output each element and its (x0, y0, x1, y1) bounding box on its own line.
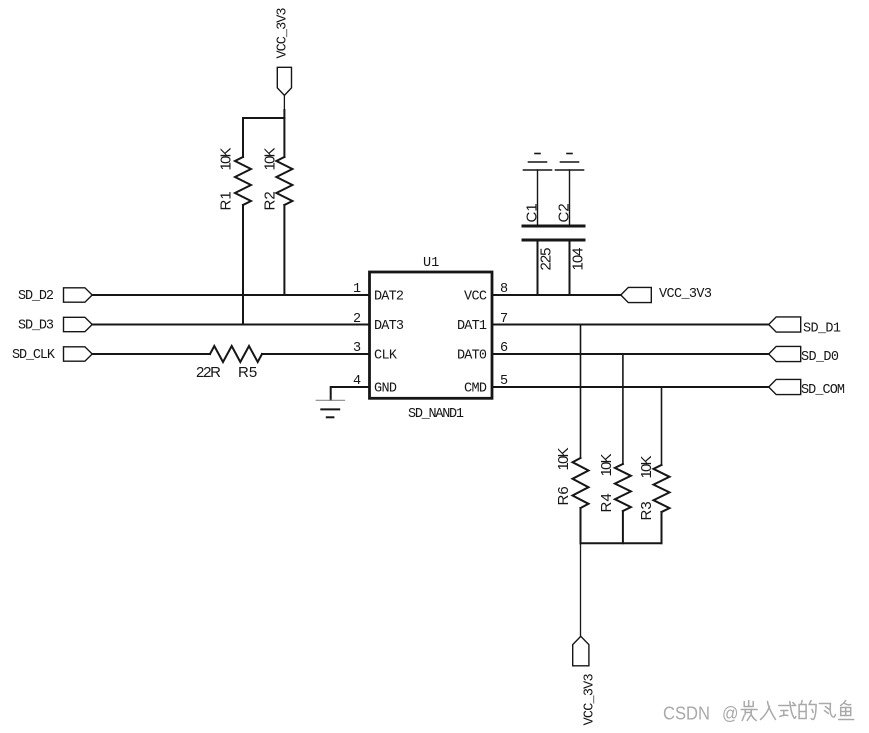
svg-text:R1: R1 (218, 191, 235, 210)
wire: R1 bottom lead to SD_D3 net (242, 205, 244, 325)
wire: R3 bottom lead (661, 512, 663, 543)
port SD_D2 (18, 288, 92, 304)
wire: pin 4 to ground (331, 387, 370, 400)
wire: pin 6 DAT0 to port SD_D0 (492, 353, 769, 355)
svg-text:22R: 22R (196, 364, 221, 381)
watermark CSDN (663, 704, 739, 724)
svg-text:DAT1: DAT1 (457, 319, 487, 334)
svg-text:C1: C1 (524, 203, 541, 222)
svg-text:R3: R3 (638, 501, 655, 520)
svg-text:SD_D0: SD_D0 (801, 350, 839, 365)
wire: pin 5 CMD to port SD_COM (492, 386, 769, 388)
resistor R4 10K (598, 454, 631, 513)
watermark char 鱼 (839, 701, 854, 720)
svg-text:GND: GND (374, 382, 397, 397)
svg-text:10K: 10K (218, 148, 235, 171)
wire: SD_D3 to pin 2 (92, 324, 369, 326)
watermark char 的 (799, 701, 816, 720)
wire: pin 8 VCC to port (492, 294, 621, 296)
svg-text:CSDN: CSDN (663, 704, 710, 724)
svg-text:SD_D2: SD_D2 (18, 289, 54, 304)
port SD_CLK (12, 347, 92, 363)
svg-text:2: 2 (353, 312, 361, 327)
wire: R2 bottom lead to SD_D2 net (283, 205, 285, 295)
wire: CMD branch down to R3 (661, 387, 663, 465)
power port VCC_3V3 (bottom) (573, 636, 598, 725)
port SD_D0 (769, 346, 839, 365)
svg-text:VCC_3V3: VCC_3V3 (659, 287, 712, 302)
watermark char 式 (779, 702, 796, 719)
svg-text:10K: 10K (555, 448, 572, 471)
power port VCC_3V3 (right) (621, 287, 712, 303)
svg-text:VCC: VCC (464, 290, 487, 305)
svg-text:SD_NAND1: SD_NAND1 (408, 407, 464, 422)
svg-text:VCC_3V3: VCC_3V3 (583, 673, 598, 725)
wire: R5 to pin 3 (262, 353, 370, 355)
resistor R1 10K (218, 148, 252, 211)
svg-text:SD_D1: SD_D1 (803, 322, 841, 337)
svg-text:104: 104 (570, 248, 587, 271)
svg-text:DAT0: DAT0 (457, 349, 487, 364)
svg-text:@: @ (722, 704, 739, 724)
port SD_D3 (18, 317, 92, 333)
svg-text:10K: 10K (598, 454, 615, 477)
svg-text:CLK: CLK (374, 349, 398, 364)
wire: DAT0 branch down to R4 (622, 354, 624, 464)
svg-text:SD_CLK: SD_CLK (12, 348, 56, 363)
svg-text:225: 225 (538, 248, 555, 271)
watermark char 飞 (819, 704, 835, 718)
port SD_D1 (769, 317, 841, 337)
wire: R4 bottom lead (622, 511, 624, 543)
svg-text:R4: R4 (598, 493, 615, 512)
svg-text:U1: U1 (423, 256, 439, 271)
capacitor C2 104 (555, 170, 587, 295)
svg-text:VCC_3V3: VCC_3V3 (276, 8, 291, 59)
resistor R2 10K (262, 148, 293, 211)
svg-text:SD_COM: SD_COM (801, 383, 845, 398)
wire: pullup common rail (581, 542, 662, 544)
port SD_COM (769, 379, 845, 398)
IC U1 SD_NAND1 (370, 256, 493, 422)
watermark char 嵌 (741, 701, 757, 721)
watermark char 入 (761, 702, 776, 720)
svg-text:R2: R2 (262, 191, 279, 210)
svg-text:1: 1 (353, 282, 361, 297)
ground (316, 400, 344, 417)
wire: DAT1 branch down to R6 (580, 325, 582, 459)
svg-text:R5: R5 (238, 364, 257, 381)
wire: SD_CLK to R5 (92, 353, 210, 355)
svg-text:SD_D3: SD_D3 (18, 319, 54, 334)
svg-text:DAT3: DAT3 (374, 319, 404, 334)
svg-text:4: 4 (353, 374, 361, 389)
wire: top port to R1/R2 junction (283, 95, 285, 110)
svg-text:10K: 10K (262, 148, 279, 171)
wire: R6 bottom lead (580, 508, 582, 543)
wire: rail down to bottom power port (580, 543, 582, 636)
wire: SD_D2 to pin 1 (92, 294, 369, 296)
power port VCC_3V3 (top) (276, 8, 292, 96)
resistor R6 10K (555, 448, 589, 509)
wire: pin 7 DAT1 to port SD_D1 (492, 324, 769, 326)
ground (C1 top) (524, 154, 552, 171)
resistor R5 22R (196, 346, 262, 381)
svg-text:DAT2: DAT2 (374, 290, 404, 305)
svg-text:3: 3 (353, 341, 361, 356)
svg-text:C2: C2 (556, 203, 573, 222)
capacitor C1 225 (523, 170, 555, 295)
wire: R2 top lead (283, 118, 285, 157)
svg-text:10K: 10K (638, 456, 655, 479)
resistor R3 10K (638, 456, 670, 521)
svg-text:R6: R6 (555, 486, 572, 505)
ground (C2 top) (556, 154, 584, 171)
svg-text:CMD: CMD (464, 382, 487, 397)
